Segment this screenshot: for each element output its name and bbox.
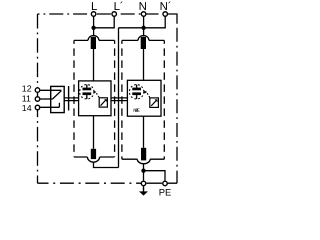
svg-text:N: N <box>139 1 147 13</box>
plug contact top right: socket arc <box>138 36 149 41</box>
wire right module bottom to PE junction <box>143 164 145 171</box>
module box right: bottom edge <box>122 158 164 160</box>
svg-text:14: 14 <box>22 103 32 113</box>
enclosure dash-dot border left <box>37 14 39 108</box>
disconnector box right <box>150 98 159 108</box>
svg-text:L: L <box>91 1 97 13</box>
plug contact bottom right: socket arc <box>137 159 150 164</box>
plug contact top left: blade <box>91 37 96 49</box>
wire L junction to left module plug <box>93 28 95 37</box>
enclosure dash-dot border bottom right part <box>146 182 177 184</box>
wire right SPD box to bottom blade <box>143 116 145 148</box>
wire left SPD box to bottom blade <box>93 116 95 149</box>
module box right: top edge <box>122 39 164 41</box>
module box left: top edge <box>74 39 115 41</box>
wire terminal 11 to lever <box>40 98 52 100</box>
svg-text:11: 11 <box>22 93 31 103</box>
PE terminal circle <box>163 181 168 186</box>
terminal L' <box>112 12 117 17</box>
spark gap electrodes left <box>83 85 92 100</box>
wire L terminal down <box>93 17 95 28</box>
wire N terminal down <box>143 17 145 28</box>
spark gap circle left (dashed) <box>80 85 94 99</box>
FM switch box <box>51 86 64 112</box>
wire left module bottom to N bus <box>94 162 119 168</box>
terminal N' <box>163 12 168 17</box>
plug contact bottom left: blade <box>91 149 96 159</box>
enclosure dash-dot border right <box>176 22 178 183</box>
earth arrow shaft <box>143 186 145 191</box>
earth terminal circle <box>141 181 146 186</box>
spark gap electrodes right <box>132 85 141 100</box>
wire PE node down to earth terminal <box>143 171 145 181</box>
terminal 14 <box>35 105 40 110</box>
FM signal line between modules <box>111 98 127 101</box>
disconnector slash left <box>101 100 107 106</box>
junction dot L <box>91 26 95 30</box>
SPD inner box right <box>127 80 161 116</box>
wire N' terminal to N bus <box>119 17 166 28</box>
plug contact top right: blade <box>141 37 146 49</box>
terminal 11 <box>35 97 40 102</box>
wire terminal 12 into box <box>40 89 61 91</box>
svg-text:L´: L´ <box>114 1 124 13</box>
enclosure dash-dot border top <box>38 13 166 15</box>
terminal N <box>141 12 146 17</box>
wire N junction to right module plug <box>143 28 145 37</box>
module box left: side edges dashed <box>73 40 75 157</box>
earth arrow head <box>139 191 148 195</box>
svg-text:NPE: NPE <box>133 108 140 114</box>
junction dot N <box>141 26 145 30</box>
svg-text:12: 12 <box>22 84 32 94</box>
SPD inner box left <box>79 81 111 116</box>
plug contact bottom right: blade <box>141 148 146 161</box>
wire blade to left SPD box <box>93 49 95 81</box>
junction dot PE node <box>141 169 145 173</box>
disconnector box left <box>99 98 107 107</box>
trigger arrow left <box>93 90 96 93</box>
plug contact bottom left: socket arc <box>87 157 99 162</box>
FM link bar <box>68 86 70 111</box>
trigger arrow right <box>144 90 147 93</box>
wire terminal 14 and fixed contact <box>40 103 59 108</box>
plug contact top left: socket arc <box>88 36 99 41</box>
terminal 12 <box>35 88 40 93</box>
switch lever <box>52 91 61 99</box>
wire L' terminal jumper to L junction <box>94 17 115 28</box>
disconnector slash right <box>151 100 157 106</box>
svg-text:PE: PE <box>159 186 172 197</box>
enclosure border top-right corner <box>165 14 177 22</box>
spark gap circle right (dashed) <box>129 85 143 99</box>
wire PE node to PE terminal <box>144 171 166 181</box>
module box left: bottom edge <box>74 156 115 158</box>
terminal L <box>91 12 96 17</box>
svg-text:N´: N´ <box>160 1 172 13</box>
wire blade to right SPD box <box>143 49 145 80</box>
N bus vertical wire between modules <box>118 28 120 168</box>
FM double signal line <box>64 98 78 101</box>
module box right: side edges dashed <box>121 40 123 159</box>
enclosure dash-dot border bottom <box>38 182 144 184</box>
